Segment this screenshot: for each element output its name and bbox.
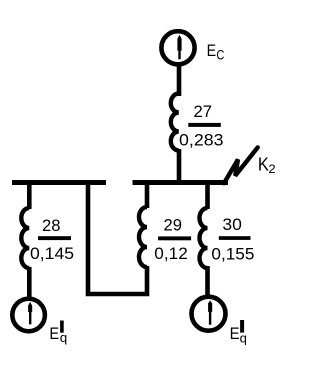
label 30 / 0,155 — [211, 215, 254, 263]
label 29 / 0,12 — [154, 216, 191, 263]
wire — [205, 266, 210, 298]
label E_q'' left — [49, 321, 67, 345]
svg-text:q: q — [60, 330, 68, 345]
svg-text:2: 2 — [268, 162, 276, 176]
wire — [145, 180, 150, 208]
svg-text:C: C — [216, 48, 224, 63]
inductor 28 — [21, 208, 29, 268]
wire — [177, 149, 182, 183]
wire — [27, 180, 32, 209]
inductor 30 — [200, 208, 208, 268]
source E_C — [161, 31, 194, 64]
svg-text:28: 28 — [42, 216, 61, 235]
wire — [205, 180, 210, 209]
wire — [27, 267, 32, 300]
svg-text:29: 29 — [164, 216, 183, 235]
svg-text:0,145: 0,145 — [30, 244, 74, 263]
label E_q'' right — [230, 320, 247, 345]
inductor 29 — [139, 207, 147, 267]
svg-text:E: E — [49, 324, 59, 343]
source E_q'' right — [192, 297, 226, 331]
inductor 27 — [171, 94, 179, 151]
svg-text:0,12: 0,12 — [154, 244, 188, 263]
label 27 / 0,283 — [179, 102, 224, 150]
source E_q'' left — [12, 299, 45, 332]
svg-text:27: 27 — [194, 102, 213, 121]
svg-text:0,155: 0,155 — [211, 244, 254, 263]
svg-text:E: E — [230, 324, 240, 343]
svg-text:0,283: 0,283 — [179, 131, 224, 150]
svg-text:30: 30 — [222, 215, 242, 234]
right bus — [133, 180, 229, 185]
label 28 / 0,145 — [30, 216, 74, 263]
wire — [88, 180, 147, 294]
svg-text:E: E — [207, 41, 217, 60]
svg-text:q: q — [240, 330, 247, 345]
wire — [177, 63, 182, 96]
short-circuit bolt K2 — [224, 147, 258, 183]
left bus — [12, 180, 106, 185]
